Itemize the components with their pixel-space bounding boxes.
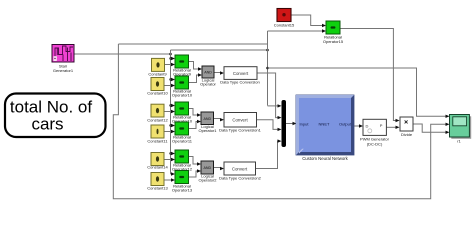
svg-text:AND: AND	[204, 71, 212, 75]
svg-text:Constant14: Constant14	[147, 165, 168, 170]
relational operator RO15	[323, 21, 344, 44]
custom neural network block U1	[296, 95, 355, 161]
wire constant14 to RO13 in2	[165, 158, 176, 161]
wire constant13 to RO14 in2	[165, 178, 176, 181]
wire RO12 to AND2 in2	[189, 120, 202, 129]
svg-text:Operator15: Operator15	[323, 39, 344, 44]
wire stub to RO12 in1	[171, 124, 176, 127]
constant C9	[148, 58, 167, 76]
wire stub to RO14 in1	[171, 172, 176, 175]
logical operator AND1	[200, 66, 216, 87]
wire y44 branch	[118, 43, 267, 45]
constant C14	[147, 153, 168, 170]
svg-text:Constant13: Constant13	[147, 186, 168, 191]
wire constant11 to RO12 in2	[165, 130, 176, 133]
svg-text:Output: Output	[339, 122, 352, 127]
wire node B vertical	[266, 31, 269, 106]
wire NNET output to PWM generator	[354, 124, 363, 127]
svg-text:P: P	[380, 123, 383, 128]
wire node B to scope in1	[268, 68, 450, 118]
relational operator RO11	[172, 102, 193, 124]
svg-text:Operator10: Operator10	[172, 93, 193, 98]
divide block	[400, 117, 413, 137]
logical operator AND2	[198, 112, 217, 133]
svg-text:D: D	[366, 124, 369, 129]
wire vertical distribution line	[169, 50, 171, 174]
wire convert1 to mux in2	[257, 73, 282, 119]
wire node B to mux in1	[268, 104, 282, 107]
svg-text:Generator1: Generator1	[53, 68, 74, 73]
constant C10	[147, 78, 168, 96]
data type conversion convert2	[219, 113, 262, 133]
wire top distribution to node B	[171, 49, 269, 52]
svg-text:Custom Neural Network: Custom Neural Network	[302, 156, 348, 161]
wire AND2 to convert2	[214, 118, 225, 121]
wire relational operator15 to divide in1	[340, 29, 400, 123]
relational operator RO9	[173, 55, 192, 76]
mux	[282, 100, 287, 147]
relational operator RO14	[172, 171, 193, 193]
wire AND3 to convert3	[214, 167, 225, 170]
wire RO11 to AND2 in1	[189, 109, 202, 117]
wire constant12 to RO11 in2	[165, 110, 176, 113]
svg-text:Operator1: Operator1	[198, 128, 217, 133]
wire stub to RO9 in1	[171, 57, 176, 60]
PWM generator block	[360, 119, 390, 146]
wire node B to relational operator15 in2	[268, 29, 327, 32]
svg-text:Data Type Conversion2: Data Type Conversion2	[219, 176, 262, 181]
svg-text:Constant11: Constant11	[147, 139, 168, 144]
svg-text:AND: AND	[204, 117, 212, 121]
svg-text:Convert: Convert	[232, 166, 248, 171]
svg-text:Operator2: Operator2	[198, 178, 217, 183]
annotation bubble total No. of cars	[5, 94, 106, 138]
svg-text:Constant15: Constant15	[274, 23, 295, 28]
svg-text:NNET: NNET	[319, 122, 330, 127]
svg-text:Convert: Convert	[232, 118, 248, 123]
wire RO9 to AND1 in1	[189, 62, 203, 71]
relational operator RO12	[172, 122, 193, 144]
wire stub to RO13 in1	[171, 152, 176, 155]
relational operator RO13	[172, 150, 193, 172]
svg-text:Operator: Operator	[200, 82, 216, 87]
data type conversion convert3	[219, 162, 262, 181]
stair generator block	[52, 45, 74, 74]
logical operator AND3	[198, 161, 217, 183]
wire stair output to distribution line	[74, 53, 172, 56]
wire divide to scope in3	[413, 124, 450, 134]
wire AND1 to convert1	[214, 71, 224, 74]
svg-text:(DC-DC): (DC-DC)	[367, 142, 383, 147]
wire constant15 to relational operator15 in1	[291, 15, 326, 27]
wire constant9 to RO9 in2	[165, 63, 176, 66]
wire convert3 to mux in4	[256, 139, 282, 168]
svg-text:Constant10: Constant10	[147, 91, 168, 96]
svg-text:Data Type Conversion1: Data Type Conversion1	[219, 128, 262, 133]
wire RO14 to AND3 in2	[189, 169, 202, 177]
svg-text:Data Type Conversion: Data Type Conversion	[220, 80, 260, 85]
svg-text:Convert: Convert	[233, 71, 249, 76]
constant C12	[147, 104, 168, 122]
constant C11	[147, 125, 168, 144]
svg-text:Constant9: Constant9	[148, 72, 167, 77]
wire stub to RO11 in1	[171, 104, 176, 107]
svg-text:cars: cars	[31, 115, 63, 134]
scope r1	[450, 115, 472, 144]
data type conversion convert1	[220, 67, 260, 85]
relational operator RO10	[172, 76, 193, 98]
constant C15	[274, 9, 295, 28]
svg-text:Divide: Divide	[401, 132, 413, 137]
wire PWM generator to divide in2	[386, 126, 399, 129]
svg-text:Operator13: Operator13	[172, 188, 193, 193]
svg-text:Input: Input	[300, 122, 310, 127]
svg-text:Constant12: Constant12	[147, 118, 168, 123]
wire constant10 to RO10 in2	[165, 84, 176, 87]
wire feedback to scope in2	[113, 44, 449, 199]
wire mux to NNET input	[286, 122, 297, 125]
wire RO13 to AND3 in1	[189, 157, 202, 166]
svg-text:Operator11: Operator11	[172, 139, 193, 144]
constant C13	[147, 173, 168, 191]
wire RO10 to AND1 in2	[189, 73, 203, 82]
svg-text:AND: AND	[204, 166, 212, 170]
wire stub to RO10 in1	[171, 78, 176, 81]
wire convert2 to mux in3	[257, 120, 282, 131]
